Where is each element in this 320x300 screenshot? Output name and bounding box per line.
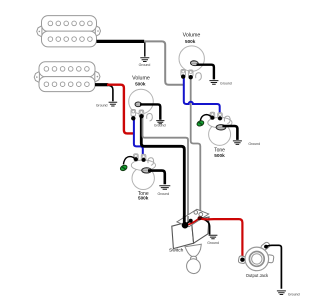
svg-text:500k: 500k: [135, 82, 146, 87]
svg-text:Ground: Ground: [96, 103, 108, 107]
svg-text:Output Jack: Output Jack: [246, 273, 269, 278]
svg-text:Switch: Switch: [169, 247, 184, 253]
svg-text:Ground: Ground: [288, 292, 300, 296]
svg-text:Ground: Ground: [139, 63, 151, 67]
svg-text:500k: 500k: [185, 39, 196, 44]
svg-text:Ground: Ground: [207, 241, 219, 245]
svg-text:Ground: Ground: [248, 142, 260, 146]
svg-text:Ground: Ground: [154, 124, 166, 128]
svg-text:Volume: Volume: [183, 32, 201, 38]
svg-text:Ground: Ground: [220, 81, 232, 85]
svg-text:Ground: Ground: [158, 192, 170, 196]
svg-text:500k: 500k: [138, 196, 149, 201]
svg-text:Volume: Volume: [132, 76, 150, 82]
svg-text:500k: 500k: [214, 153, 225, 158]
